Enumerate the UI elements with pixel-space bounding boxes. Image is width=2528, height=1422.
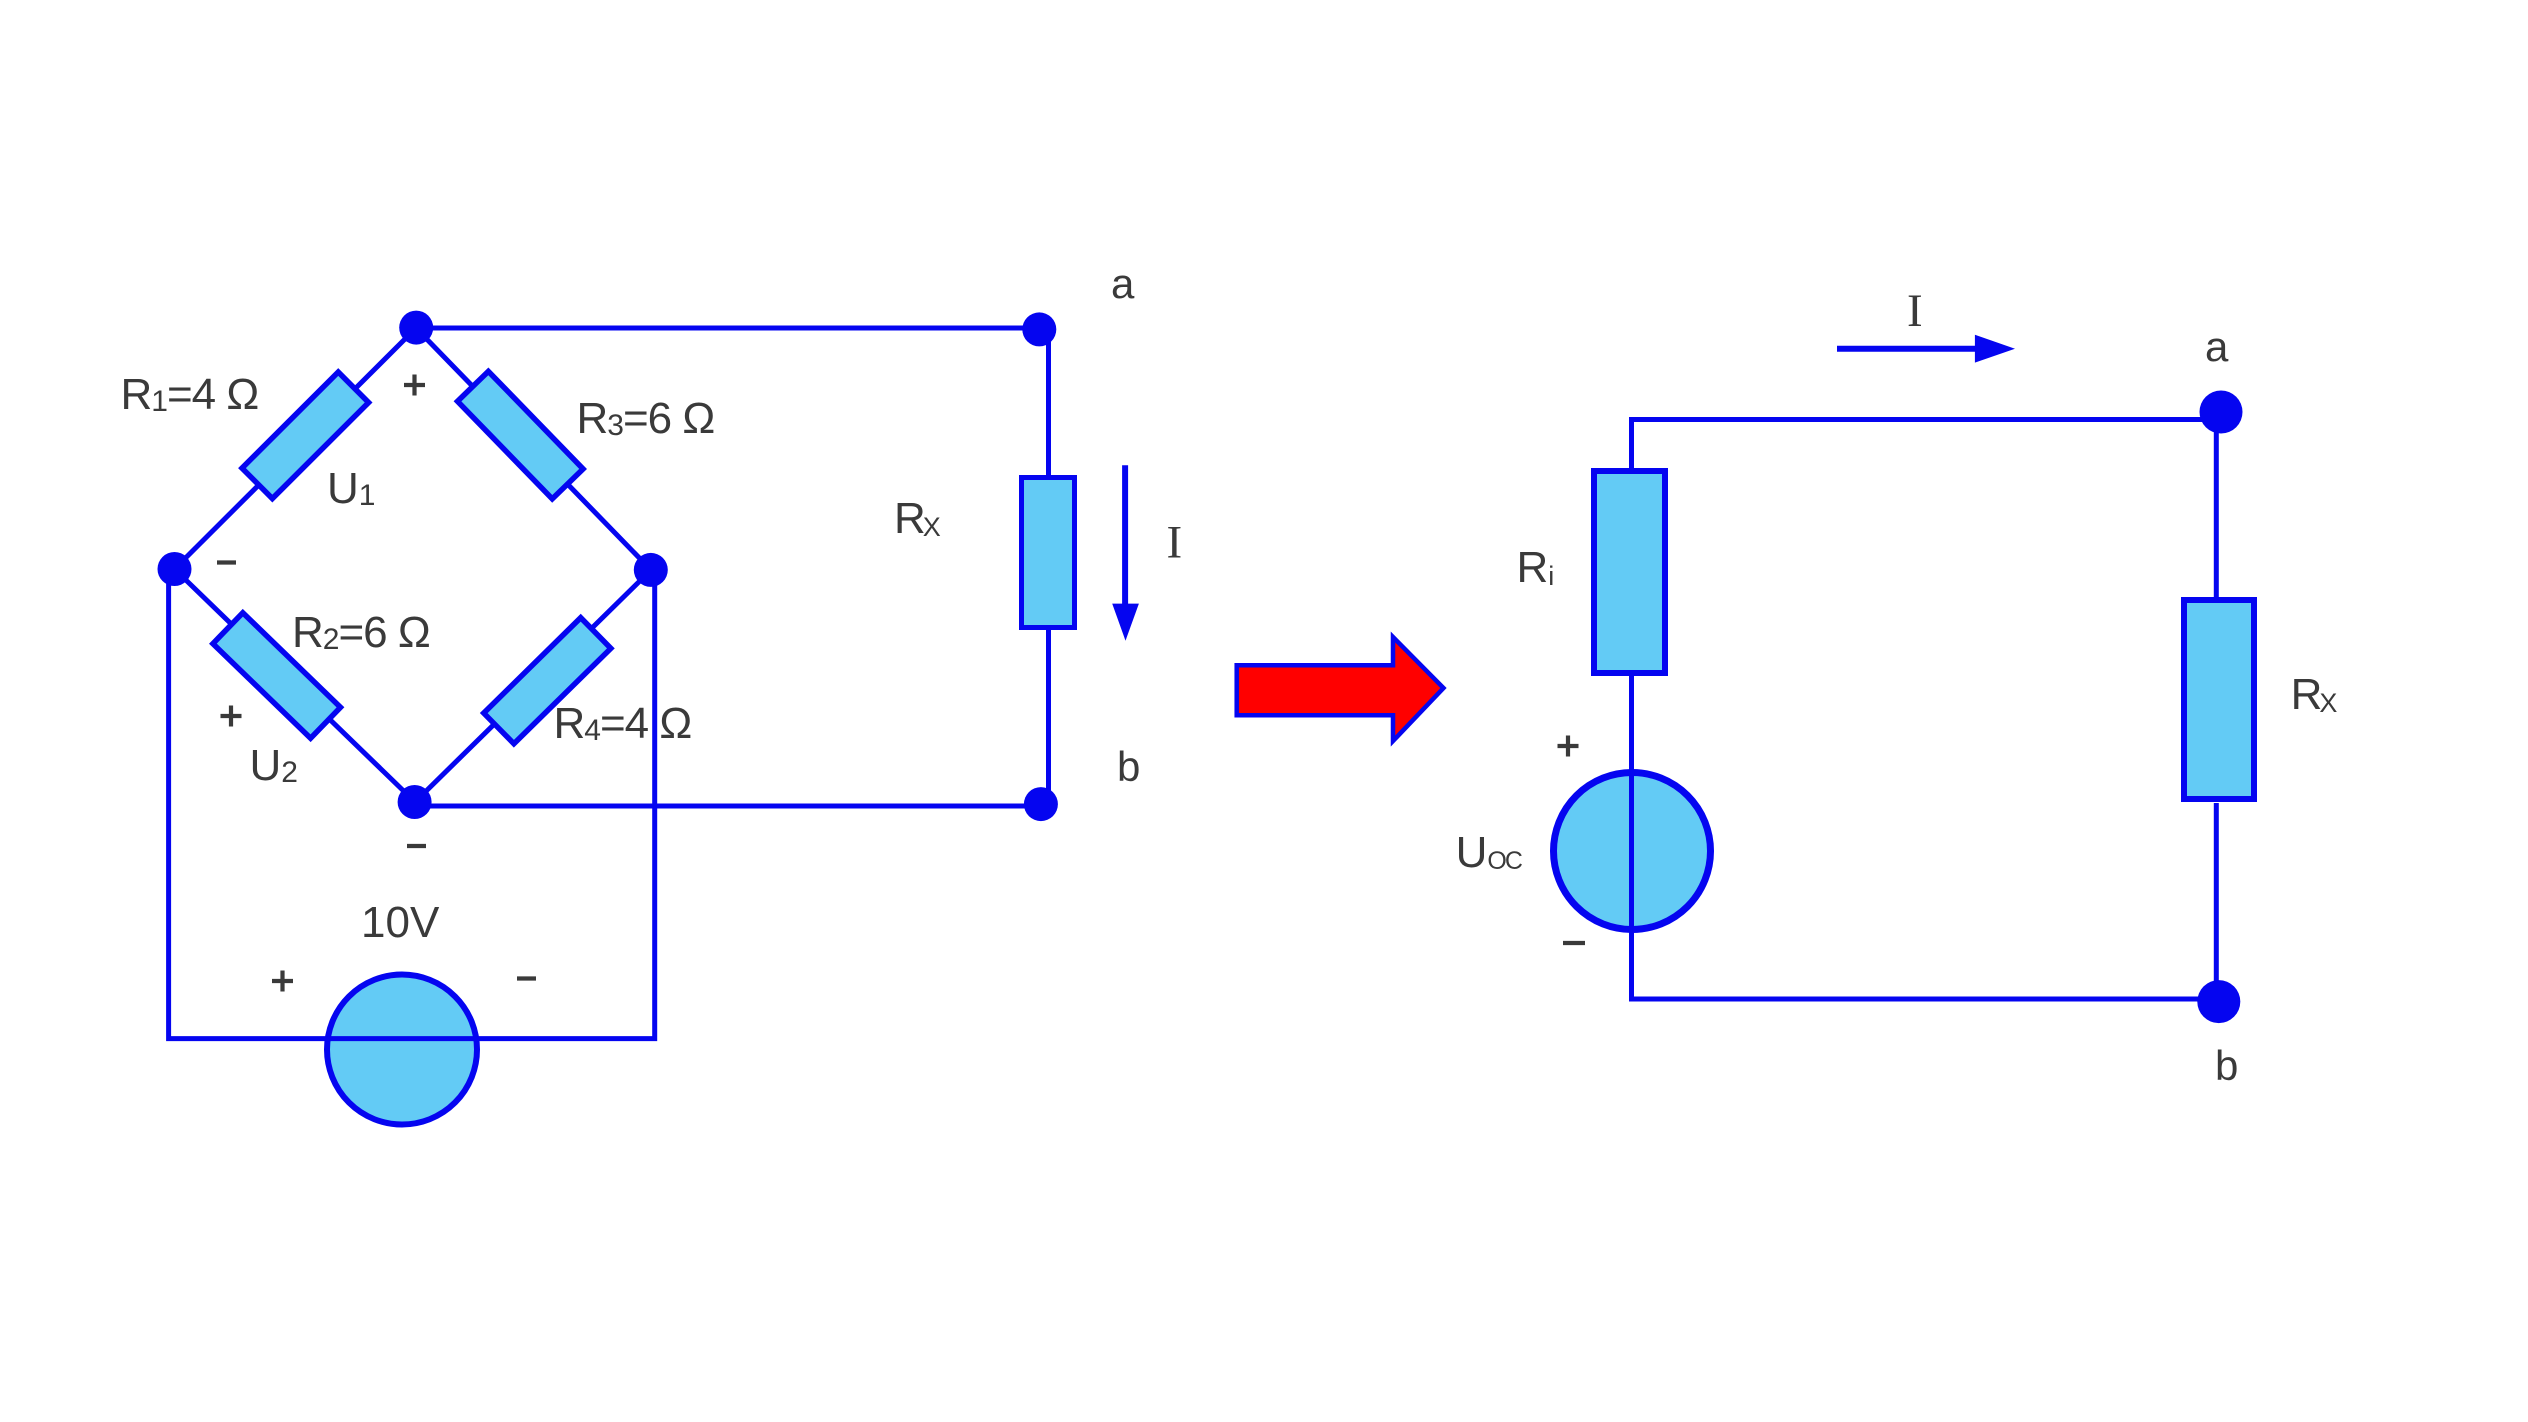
node b (left circuit) [1024,787,1058,821]
svg-text:U2: U2 [250,741,298,790]
svg-text:I: I [1907,285,1923,337]
node a (right circuit) [2200,391,2243,434]
node b (right circuit) [2197,980,2240,1023]
node: bridge top [399,311,433,345]
wire: bridge edge top-right (R3 branch) [416,328,651,570]
wire: Ri down through source Uoc to bottom corner [1629,671,1634,999]
svg-text:I: I [1167,517,1183,569]
plus sign of U1 [404,375,425,396]
wire: Rx down to node b [1046,628,1051,800]
minus sign of source [517,976,536,980]
svg-text:b: b [1117,743,1140,790]
svg-text:a: a [1111,260,1135,307]
svg-text:R1=4 Ω: R1=4 Ω [121,370,259,419]
voltage source 10V circle [327,975,477,1125]
current arrow I (rightward, right circuit) [1837,346,1978,352]
svg-text:a: a [2205,323,2229,370]
svg-text:RX: RX [894,494,941,543]
wire: node b up to Rx (right) [2214,803,2219,1000]
minus sign below bridge bottom node [407,844,426,848]
resistor R4 body [484,618,611,744]
svg-text:UOC: UOC [1456,828,1523,877]
svg-text:b: b [2215,1042,2238,1089]
plus sign of Uoc [1558,736,1579,757]
svg-text:R2=6 Ω: R2=6 Ω [292,608,430,657]
wire: right circuit top side (corner to node a) [1632,420,2219,471]
voltage source Uoc circle [1554,773,1711,930]
resistor R2 body [213,613,341,739]
node: bridge bottom [398,785,432,819]
resistor Rx body (right circuit) [2184,600,2254,799]
resistor R1 body [242,372,369,499]
plus sign of source [272,971,293,992]
node: bridge right [634,553,668,587]
svg-text:Ri: Ri [1517,543,1555,592]
svg-text:R3=6 Ω: R3=6 Ω [577,394,715,443]
minus sign of Uoc [1563,941,1585,945]
wire: bottom side to node b [1629,997,2218,1002]
resistor Rx body (left circuit) [1022,478,1075,628]
wire: bridge top node to node a [416,326,1040,331]
svg-text:10V: 10V [361,898,440,947]
wire: left node down, bottom source wire, up to right node [169,569,655,1039]
plus sign of U2 [221,706,242,727]
svg-text:U1: U1 [327,464,375,513]
node: bridge left [158,552,192,586]
svg-text:R4=4 Ω: R4=4 Ω [554,699,692,748]
wire: bridge edge bottom-right (R4 branch) [415,570,651,802]
current arrow I (downward, left circuit) [1122,465,1128,607]
wire: node a down to Rx [1046,330,1051,478]
wire: bridge edge bottom-left (R2 branch) [175,569,416,802]
svg-text:RX: RX [2291,670,2338,719]
big red transform arrow [1237,637,1444,741]
wire: Rx (right) up to node a [2214,415,2219,599]
wire: bridge edge top-left (R1 branch) [175,328,417,569]
minus sign of U1 [217,560,236,564]
node a (left circuit) [1022,312,1056,346]
resistor Ri body [1594,471,1665,673]
wire: bridge bottom node to node b [415,804,1041,809]
resistor R3 body [458,371,584,499]
